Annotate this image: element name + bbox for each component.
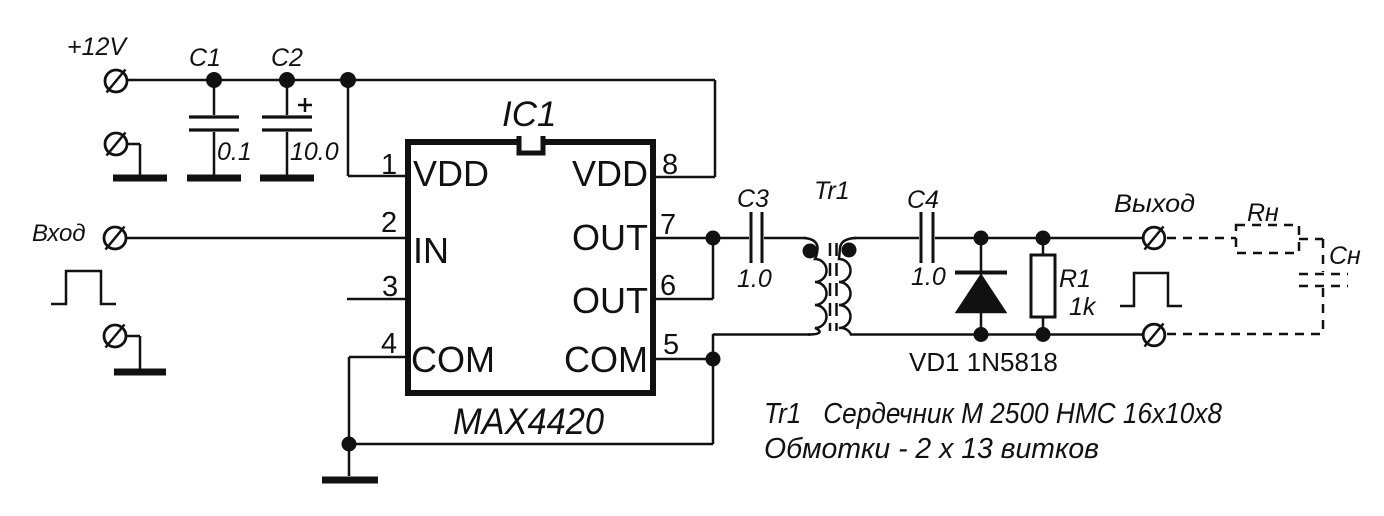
terminal input [104, 227, 126, 250]
svg-text:2: 2 [381, 207, 397, 239]
svg-text:6: 6 [660, 270, 676, 302]
svg-text:MAX4420: MAX4420 [453, 401, 604, 442]
svg-text:COM: COM [411, 339, 495, 380]
svg-text:1.0: 1.0 [911, 263, 946, 291]
svg-text:Rн: Rн [1247, 199, 1279, 227]
svg-text:Обмотки - 2 х 13 витков: Обмотки - 2 х 13 витков [764, 433, 1099, 465]
node Tr1 primary dot [803, 244, 818, 259]
svg-text:1: 1 [381, 149, 397, 181]
wire top rail [127, 79, 715, 82]
resistor Rn load (dashed) [1236, 225, 1299, 253]
svg-text:C3: C3 [737, 185, 769, 213]
terminal +12V [105, 70, 127, 93]
wire ground run to pin5 [349, 359, 713, 444]
node Tr1 secondary dot [842, 243, 857, 258]
wire Tr1 primary bottom to pin5 [713, 334, 810, 359]
ground main [322, 444, 378, 480]
svg-text:1k: 1k [1069, 293, 1097, 321]
wire terminal to ground [127, 144, 140, 175]
node pin5 junction [706, 352, 721, 367]
node ground junction [342, 437, 357, 452]
node junction C1 [206, 72, 222, 88]
transformer Tr1 primary winding [804, 238, 827, 335]
svg-text:7: 7 [660, 209, 676, 241]
terminal output bottom [1143, 324, 1165, 347]
ground under C1 [187, 175, 241, 182]
transformer Tr1 secondary winding [839, 238, 856, 335]
svg-text:OUT: OUT [572, 217, 648, 258]
svg-text:Сн: Сн [1329, 242, 1361, 270]
svg-text:VD1 1N5818: VD1 1N5818 [909, 347, 1058, 377]
svg-text:8: 8 [662, 149, 678, 181]
node pin7 junction [706, 231, 721, 246]
ground at input return [114, 369, 166, 376]
svg-text:3: 3 [382, 271, 398, 303]
ground at +12V return [113, 175, 167, 182]
capacitor C2 polarized [262, 80, 312, 175]
node R1 top [1036, 231, 1051, 246]
wire input to pin2 [126, 237, 408, 240]
diode VD1 [955, 238, 1007, 335]
svg-text:4: 4 [381, 328, 397, 360]
svg-text:+12V: +12V [67, 33, 128, 61]
node junction C2 [279, 72, 295, 88]
wire pin7 out [653, 237, 749, 240]
input pulse symbol [51, 271, 116, 304]
capacitor Cn load (dashed) [1299, 274, 1348, 286]
capacitor C1 [189, 80, 239, 175]
svg-text:OUT: OUT [572, 280, 648, 321]
svg-text:C1: C1 [189, 44, 221, 72]
wire dashed output top [1167, 237, 1236, 240]
wire input return to ground [126, 336, 140, 369]
node R1 bottom [1036, 327, 1051, 342]
wire pin5 [653, 358, 713, 361]
svg-text:Tr1: Tr1 [814, 177, 850, 205]
svg-text:Вход: Вход [32, 220, 86, 247]
wire C3 to Tr1 [764, 237, 806, 240]
wire pin8 [653, 80, 715, 177]
wire dashed Cn to bottom [1167, 288, 1323, 334]
IC IC1 MAX4420 body [408, 136, 653, 393]
node diode top [974, 231, 989, 246]
capacitor C4 [921, 212, 933, 263]
wire bottom row [850, 333, 1143, 336]
terminal output top [1143, 227, 1165, 250]
capacitor C3 [751, 212, 762, 263]
transformer Tr1 core [830, 243, 837, 331]
svg-text:IN: IN [413, 230, 449, 271]
node diode bottom [974, 327, 989, 342]
svg-text:10.0: 10.0 [290, 138, 339, 166]
wire pin4 [349, 357, 408, 444]
wire pin3 stub [347, 298, 408, 301]
node junction pin1 rail [340, 72, 356, 88]
svg-text:IC1: IC1 [502, 95, 556, 134]
wire Tr1 secondary top to C4 [854, 237, 919, 240]
svg-text:C4: C4 [907, 186, 939, 214]
svg-text:Tr1 Сердечник М 2500 НМС 16х: Tr1 Сердечник М 2500 НМС 16х10х8 [764, 398, 1222, 430]
svg-text:VDD: VDD [572, 153, 648, 194]
wire pin1 [348, 80, 408, 176]
wire pin6 tie to pin7 [653, 238, 713, 299]
terminal input return [104, 325, 126, 348]
svg-text:0.1: 0.1 [217, 138, 252, 166]
svg-text:5: 5 [663, 329, 679, 361]
svg-text:R1: R1 [1059, 265, 1091, 293]
output pulse symbol [1120, 273, 1182, 306]
ground under C2 [260, 175, 314, 182]
wire dashed Rn to Cn [1299, 239, 1323, 272]
svg-text:C2: C2 [271, 44, 303, 72]
resistor R1 [1031, 238, 1055, 335]
wire C4 to output [935, 237, 1143, 240]
svg-text:VDD: VDD [413, 153, 489, 194]
svg-text:Выход: Выход [1114, 190, 1195, 218]
svg-text:COM: COM [564, 339, 648, 380]
terminal +12V return [105, 133, 127, 156]
svg-text:1.0: 1.0 [737, 265, 772, 293]
